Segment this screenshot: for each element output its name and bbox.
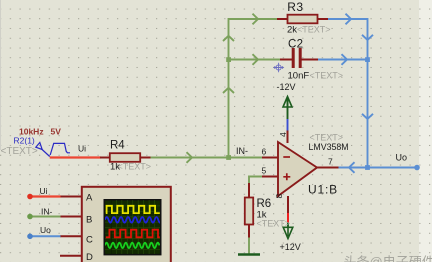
wire arrow toward R3 (green) (253, 14, 259, 25)
junction at feedback tap (green) (226, 155, 231, 160)
svg-text:7: 7 (328, 157, 333, 167)
svg-text:4: 4 (278, 132, 288, 137)
svg-text:R3: R3 (287, 0, 303, 14)
pin 7 lead (317, 167, 339, 169)
scope pin D lead (60, 255, 81, 257)
svg-text:<TEXT>: <TEXT> (1, 146, 38, 157)
scope pin B lead (60, 216, 81, 218)
wire C2 right (blue) (318, 54, 368, 65)
wire: feedback vertical green (IN- net) (223, 19, 278, 158)
scope trace B (blue wave) (105, 217, 162, 223)
svg-text:A: A (86, 193, 93, 204)
terminal dot Ui (red) (27, 194, 33, 200)
oscilloscope body (82, 187, 171, 262)
terminal dot Uo (blue) (414, 165, 420, 171)
junction blue at C2 right (365, 57, 370, 62)
scope trace D (green wave) (105, 243, 159, 248)
wire IN- to scope B (green) (30, 216, 61, 218)
svg-text:<TEXT>: <TEXT> (297, 25, 331, 35)
svg-text:IN-: IN- (41, 207, 53, 217)
generator R2 symbol (36, 143, 50, 157)
scope trace C (red square) (106, 230, 160, 238)
power +12V wire segment (red) (287, 213, 289, 223)
svg-text:U1:B: U1:B (308, 183, 338, 197)
svg-text:B: B (86, 215, 92, 226)
svg-text:<TEXT>: <TEXT> (118, 161, 152, 171)
generator pulse waveform icon (50, 143, 70, 155)
pin 5 lead (262, 176, 278, 178)
svg-text:LMV358M: LMV358M (309, 142, 349, 152)
svg-text:C2: C2 (288, 39, 303, 51)
svg-text:D: D (86, 252, 93, 262)
svg-text:2k: 2k (287, 25, 297, 36)
wire Uo to scope C (blue) (30, 235, 61, 237)
power +12V arrow (283, 223, 293, 239)
svg-text:<TEXT>: <TEXT> (310, 71, 344, 81)
resistor R3 (277, 15, 328, 24)
svg-text:Ui: Ui (78, 144, 86, 154)
svg-text:5: 5 (262, 166, 267, 176)
svg-text:+12V: +12V (280, 242, 301, 252)
ground (238, 253, 260, 255)
svg-text:R2(1): R2(1) (14, 136, 35, 146)
svg-text:IN-: IN- (236, 146, 248, 156)
power -12V arrow (283, 97, 292, 144)
wire Ui net (red) R2 to R4 (50, 156, 101, 158)
svg-text:Uo: Uo (396, 152, 408, 162)
svg-text:头条@电子硬件体: 头条@电子硬件体 (344, 255, 432, 262)
C2 origin marker (274, 63, 283, 72)
resistor R6 (245, 183, 253, 238)
svg-text:5V: 5V (51, 127, 62, 137)
scope trace A (yellow square) (106, 206, 160, 213)
svg-text:Uo: Uo (40, 225, 51, 235)
svg-text:-12V: -12V (277, 82, 296, 92)
pin 8 lead (287, 196, 289, 213)
svg-text:6: 6 (262, 147, 267, 157)
svg-text:<TEXT>: <TEXT> (257, 218, 291, 228)
pin 6 lead (262, 157, 278, 159)
svg-text:10nF: 10nF (288, 71, 310, 82)
wire IN- net R4 to pin6 (green) (150, 152, 262, 163)
wire Ui to scope A (red) (30, 195, 61, 197)
scope pin A lead (60, 196, 81, 198)
svg-text:8: 8 (274, 194, 284, 199)
wire R6 to ground (green) (248, 238, 250, 254)
junction at C2 branch (green) (226, 54, 280, 65)
terminal dot Uo (blue) (27, 234, 33, 240)
op-amp U1:B (278, 142, 317, 196)
scope screen (104, 200, 160, 255)
wire R3 right to corner (blue) (328, 14, 373, 168)
svg-text:Ui: Ui (40, 186, 48, 196)
wire pin5 to R6 (green) (249, 177, 262, 185)
svg-text:R6: R6 (257, 198, 272, 210)
output wire blue (Uo net) (339, 162, 418, 173)
capacitor C2 (280, 48, 318, 68)
svg-text:C: C (86, 235, 93, 246)
resistor R4 (100, 153, 151, 162)
scope pin C lead (60, 235, 81, 237)
junction blue at output (365, 165, 370, 170)
terminal dot IN- (green) (27, 214, 33, 220)
svg-text:R4: R4 (110, 140, 125, 152)
